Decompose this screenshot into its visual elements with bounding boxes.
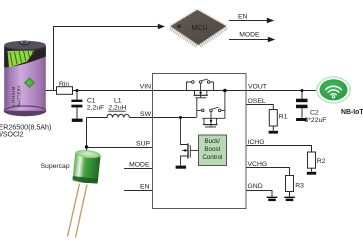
svg-text:NB-IoT: NB-IoT	[341, 109, 363, 116]
svg-text:R2: R2	[317, 158, 326, 165]
svg-text:VCHG: VCHG	[248, 161, 268, 168]
svg-text:MCU: MCU	[192, 25, 208, 32]
svg-text:SW: SW	[140, 111, 152, 118]
svg-text:ER26500(8.5Ah): ER26500(8.5Ah)	[0, 124, 51, 132]
svg-text:EN: EN	[238, 13, 248, 20]
svg-text:Supercap: Supercap	[41, 163, 70, 170]
svg-text:2,2uF: 2,2uF	[87, 104, 104, 111]
svg-text:R1: R1	[279, 114, 288, 121]
svg-text:MODE: MODE	[129, 162, 150, 169]
svg-text:R3: R3	[295, 182, 304, 189]
svg-text:GND: GND	[248, 183, 263, 190]
svg-text:SUP: SUP	[136, 141, 150, 148]
svg-text:Rin: Rin	[59, 81, 69, 88]
svg-text:EN: EN	[140, 184, 150, 191]
svg-text:OSEL: OSEL	[248, 98, 266, 105]
svg-text:3*22uF: 3*22uF	[305, 117, 327, 124]
svg-text:C2: C2	[310, 109, 319, 116]
svg-text:Li/SOCl2: Li/SOCl2	[0, 131, 24, 138]
svg-text:ICHG: ICHG	[248, 139, 265, 146]
svg-text:LITHIUM: LITHIUM	[11, 86, 16, 106]
svg-text:MODE: MODE	[239, 32, 260, 39]
svg-text:2,2uH: 2,2uH	[108, 104, 126, 111]
svg-text:BATTERY: BATTERY	[17, 85, 22, 106]
svg-text:VOUT: VOUT	[248, 84, 267, 91]
svg-text:VIN: VIN	[140, 84, 151, 91]
svg-text:Control: Control	[202, 154, 222, 161]
svg-text:Boost: Boost	[204, 146, 220, 153]
svg-text:Buck/: Buck/	[205, 138, 221, 145]
